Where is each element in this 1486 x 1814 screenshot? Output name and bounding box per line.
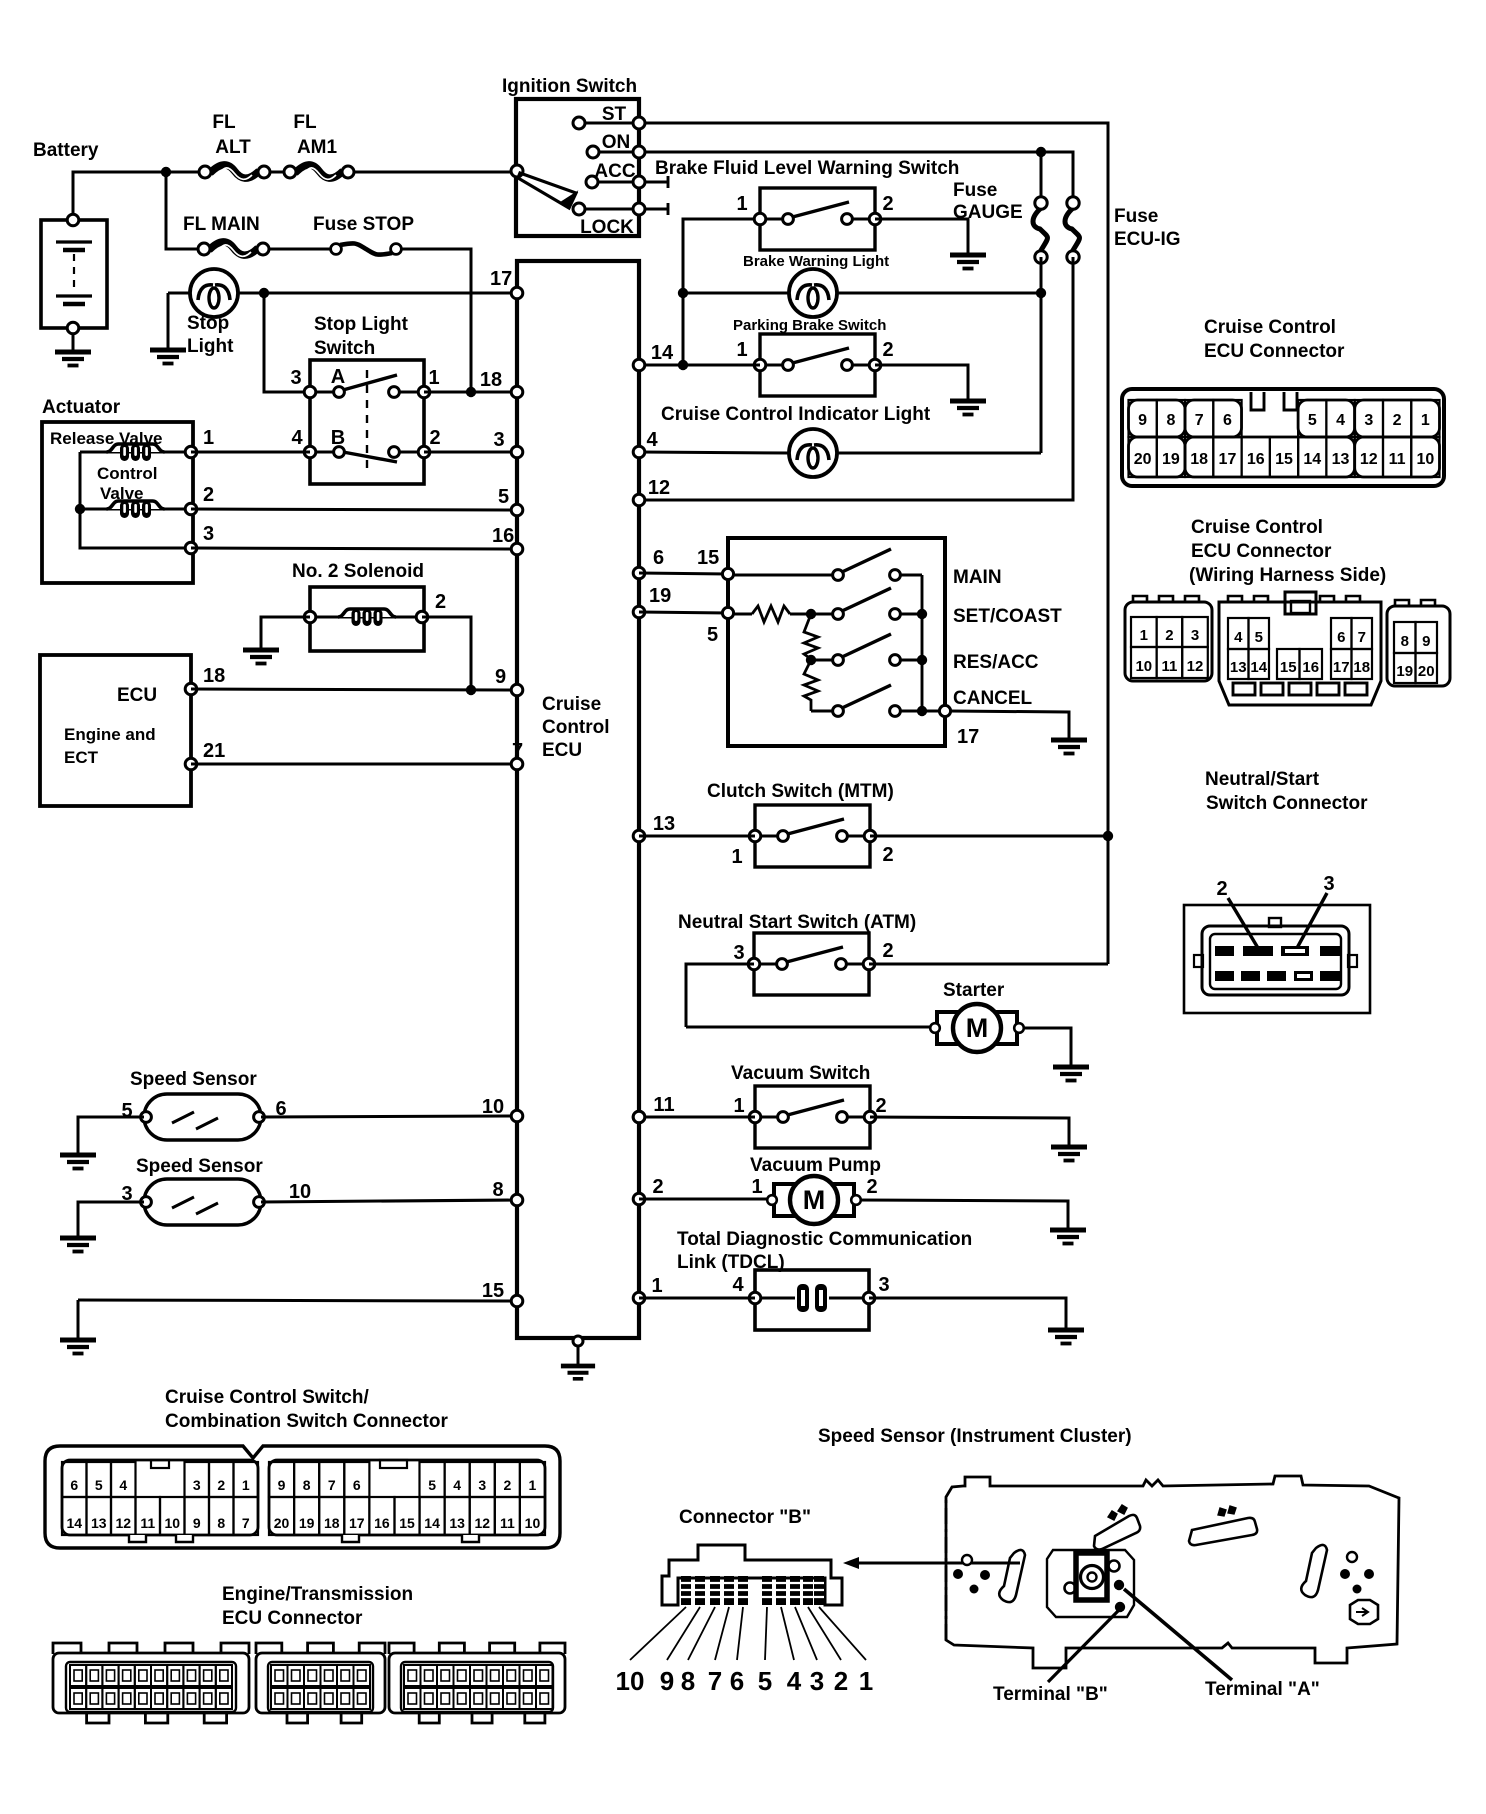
svg-text:18: 18 (203, 665, 225, 687)
svg-text:1: 1 (731, 846, 742, 868)
svg-text:M: M (803, 1185, 826, 1215)
svg-text:ECU: ECU (542, 740, 582, 761)
svg-text:18: 18 (480, 369, 502, 391)
svg-text:16: 16 (1302, 659, 1319, 676)
svg-text:ON: ON (602, 132, 631, 153)
svg-text:14: 14 (651, 342, 674, 364)
svg-text:12: 12 (474, 1515, 490, 1531)
svg-text:19: 19 (649, 585, 671, 607)
svg-text:ECT: ECT (64, 748, 99, 767)
svg-text:Light: Light (187, 336, 234, 357)
svg-text:3: 3 (203, 523, 214, 545)
svg-text:19: 19 (1396, 663, 1413, 680)
svg-text:Switch Connector: Switch Connector (1206, 793, 1368, 814)
svg-text:8: 8 (217, 1515, 225, 1531)
svg-text:6: 6 (1337, 629, 1345, 646)
svg-text:2: 2 (1393, 412, 1402, 429)
svg-text:17: 17 (957, 726, 979, 748)
svg-text:ECU-IG: ECU-IG (1114, 229, 1181, 250)
svg-text:B: B (331, 427, 345, 449)
svg-text:10: 10 (1135, 658, 1152, 675)
svg-text:16: 16 (492, 525, 514, 547)
svg-text:ECU: ECU (117, 685, 157, 706)
svg-text:Starter: Starter (943, 980, 1005, 1001)
svg-text:Fuse STOP: Fuse STOP (313, 214, 414, 235)
svg-text:5: 5 (428, 1477, 436, 1493)
svg-text:4: 4 (1234, 629, 1243, 646)
svg-text:10: 10 (1416, 451, 1434, 468)
svg-text:ACC: ACC (594, 161, 635, 182)
svg-text:19: 19 (299, 1515, 315, 1531)
svg-text:5: 5 (1308, 412, 1317, 429)
svg-text:14: 14 (66, 1515, 82, 1531)
svg-text:Parking Brake Switch: Parking Brake Switch (733, 317, 886, 334)
svg-text:2: 2 (834, 1666, 848, 1696)
svg-text:1: 1 (733, 1095, 744, 1117)
svg-text:Vacuum Pump: Vacuum Pump (750, 1155, 881, 1176)
svg-text:16: 16 (1247, 451, 1265, 468)
svg-text:15: 15 (1275, 451, 1293, 468)
svg-text:2: 2 (875, 1095, 886, 1117)
svg-text:14: 14 (424, 1515, 440, 1531)
svg-text:10: 10 (164, 1515, 180, 1531)
svg-text:17: 17 (490, 268, 512, 290)
svg-text:2: 2 (1165, 627, 1173, 644)
svg-text:7: 7 (1358, 629, 1366, 646)
svg-text:2: 2 (203, 484, 214, 506)
svg-text:17: 17 (349, 1515, 365, 1531)
svg-text:6: 6 (70, 1477, 78, 1493)
svg-text:Switch: Switch (314, 338, 375, 359)
svg-text:3: 3 (1323, 873, 1334, 895)
svg-text:7: 7 (708, 1666, 722, 1696)
svg-text:2: 2 (882, 339, 893, 361)
svg-text:15: 15 (482, 1280, 504, 1302)
svg-text:8: 8 (1401, 633, 1409, 650)
svg-text:2: 2 (882, 844, 893, 866)
svg-text:13: 13 (1230, 659, 1247, 676)
svg-text:18: 18 (324, 1515, 340, 1531)
svg-text:11: 11 (1161, 658, 1177, 675)
svg-text:Control: Control (97, 464, 157, 483)
svg-text:20: 20 (1134, 451, 1152, 468)
svg-text:8: 8 (1166, 412, 1175, 429)
svg-text:3: 3 (733, 942, 744, 964)
svg-text:6: 6 (730, 1666, 744, 1696)
svg-text:1: 1 (859, 1666, 873, 1696)
svg-text:16: 16 (374, 1515, 390, 1531)
svg-text:10: 10 (616, 1666, 645, 1696)
svg-text:3: 3 (290, 367, 301, 389)
svg-text:Cruise Control Indicator Light: Cruise Control Indicator Light (661, 404, 931, 425)
svg-text:2: 2 (1216, 878, 1227, 900)
svg-text:Neutral/Start: Neutral/Start (1205, 769, 1320, 790)
svg-text:Speed Sensor: Speed Sensor (130, 1069, 257, 1090)
svg-text:A: A (331, 366, 345, 388)
svg-text:9: 9 (278, 1477, 286, 1493)
svg-text:3: 3 (810, 1666, 824, 1696)
svg-text:Actuator: Actuator (42, 397, 121, 418)
svg-text:3: 3 (493, 429, 504, 451)
svg-text:ECU Connector: ECU Connector (222, 1608, 363, 1629)
svg-text:10: 10 (482, 1096, 504, 1118)
svg-text:19: 19 (1162, 451, 1180, 468)
svg-text:Speed Sensor: Speed Sensor (136, 1156, 263, 1177)
svg-text:Fuse: Fuse (953, 180, 997, 201)
svg-text:Terminal "B": Terminal "B" (993, 1684, 1108, 1705)
svg-text:15: 15 (697, 547, 719, 569)
svg-text:1: 1 (1421, 412, 1430, 429)
svg-text:13: 13 (449, 1515, 465, 1531)
svg-text:CANCEL: CANCEL (953, 688, 1033, 709)
svg-text:Battery: Battery (33, 140, 99, 161)
svg-text:3: 3 (878, 1274, 889, 1296)
svg-text:6: 6 (353, 1477, 361, 1493)
svg-text:Stop Light: Stop Light (314, 314, 409, 335)
svg-text:7: 7 (328, 1477, 336, 1493)
svg-text:7: 7 (512, 740, 523, 762)
svg-text:4: 4 (453, 1477, 461, 1493)
svg-text:Brake Fluid Level Warning Swit: Brake Fluid Level Warning Switch (655, 158, 959, 179)
svg-text:1: 1 (428, 367, 439, 389)
svg-text:17: 17 (1333, 659, 1350, 676)
svg-text:1: 1 (736, 339, 747, 361)
svg-text:9: 9 (495, 666, 506, 688)
svg-text:1: 1 (203, 427, 214, 449)
svg-text:Connector "B": Connector "B" (679, 1507, 811, 1528)
svg-text:AM1: AM1 (297, 137, 338, 158)
svg-text:6: 6 (1223, 412, 1232, 429)
svg-text:10: 10 (525, 1515, 541, 1531)
svg-text:3: 3 (1364, 412, 1373, 429)
svg-text:Cruise Control: Cruise Control (1191, 517, 1323, 538)
svg-text:2: 2 (217, 1477, 225, 1493)
svg-text:3: 3 (193, 1477, 201, 1493)
svg-text:11: 11 (653, 1094, 674, 1116)
svg-text:14: 14 (1303, 451, 1321, 468)
svg-text:13: 13 (653, 813, 675, 835)
svg-text:3: 3 (478, 1477, 486, 1493)
svg-text:20: 20 (274, 1515, 290, 1531)
svg-text:13: 13 (91, 1515, 107, 1531)
svg-text:9: 9 (1138, 412, 1147, 429)
svg-text:ECU Connector: ECU Connector (1191, 541, 1332, 562)
svg-text:4: 4 (119, 1477, 127, 1493)
svg-text:Clutch Switch (MTM): Clutch Switch (MTM) (707, 781, 894, 802)
svg-text:11: 11 (140, 1515, 155, 1531)
svg-text:LOCK: LOCK (580, 217, 634, 238)
svg-text:M: M (966, 1013, 989, 1043)
svg-text:15: 15 (399, 1515, 415, 1531)
svg-text:Engine and: Engine and (64, 725, 156, 744)
svg-text:5: 5 (707, 624, 718, 646)
svg-text:9: 9 (660, 1666, 674, 1696)
svg-text:11: 11 (500, 1515, 515, 1531)
svg-text:12: 12 (1360, 451, 1378, 468)
svg-text:5: 5 (95, 1477, 103, 1493)
svg-text:18: 18 (1190, 451, 1208, 468)
svg-text:4: 4 (646, 429, 658, 451)
svg-text:14: 14 (1250, 659, 1267, 676)
svg-text:No. 2 Solenoid: No. 2 Solenoid (292, 561, 424, 582)
svg-text:(Wiring Harness Side): (Wiring Harness Side) (1189, 565, 1386, 586)
svg-text:2: 2 (435, 591, 446, 613)
svg-text:FL MAIN: FL MAIN (183, 214, 260, 235)
svg-text:4: 4 (787, 1666, 802, 1696)
svg-text:7: 7 (1195, 412, 1204, 429)
svg-text:6: 6 (653, 547, 664, 569)
svg-text:Terminal "A": Terminal "A" (1205, 1679, 1320, 1700)
svg-text:12: 12 (648, 477, 670, 499)
svg-text:MAIN: MAIN (953, 567, 1002, 588)
svg-text:21: 21 (203, 740, 225, 762)
svg-text:1: 1 (651, 1275, 662, 1297)
svg-text:9: 9 (193, 1515, 201, 1531)
svg-text:Speed Sensor (Instrument Clust: Speed Sensor (Instrument Cluster) (818, 1426, 1132, 1447)
svg-text:SET/COAST: SET/COAST (953, 606, 1062, 627)
svg-text:12: 12 (1187, 658, 1204, 675)
svg-text:15: 15 (1280, 659, 1297, 676)
svg-text:5: 5 (1255, 629, 1263, 646)
svg-text:2: 2 (652, 1176, 663, 1198)
svg-text:FL: FL (293, 112, 317, 133)
svg-text:2: 2 (503, 1477, 511, 1493)
svg-text:ECU Connector: ECU Connector (1204, 341, 1345, 362)
svg-text:1: 1 (1140, 627, 1148, 644)
svg-text:11: 11 (1389, 451, 1406, 468)
svg-text:Combination Switch Connector: Combination Switch Connector (165, 1411, 448, 1432)
svg-text:8: 8 (492, 1179, 503, 1201)
svg-text:8: 8 (681, 1666, 695, 1696)
svg-text:Engine/Transmission: Engine/Transmission (222, 1584, 413, 1605)
svg-text:12: 12 (115, 1515, 131, 1531)
svg-text:10: 10 (289, 1181, 311, 1203)
svg-text:4: 4 (291, 427, 303, 449)
svg-text:1: 1 (736, 193, 747, 215)
svg-text:13: 13 (1332, 451, 1350, 468)
svg-text:3: 3 (1191, 627, 1199, 644)
svg-text:Control: Control (542, 717, 610, 738)
svg-text:20: 20 (1418, 663, 1435, 680)
svg-text:18: 18 (1353, 659, 1370, 676)
svg-text:2: 2 (429, 427, 440, 449)
svg-text:Cruise Control: Cruise Control (1204, 317, 1336, 338)
svg-text:1: 1 (242, 1477, 250, 1493)
svg-text:4: 4 (1336, 412, 1345, 429)
svg-text:5: 5 (121, 1100, 132, 1122)
svg-text:Neutral Start Switch (ATM): Neutral Start Switch (ATM) (678, 912, 916, 933)
svg-text:8: 8 (303, 1477, 311, 1493)
svg-text:2: 2 (882, 940, 893, 962)
svg-text:1: 1 (529, 1477, 537, 1493)
svg-text:Cruise Control Switch/: Cruise Control Switch/ (165, 1387, 369, 1408)
svg-text:ALT: ALT (215, 137, 251, 158)
svg-text:7: 7 (242, 1515, 250, 1531)
svg-text:5: 5 (758, 1666, 772, 1696)
svg-text:2: 2 (866, 1176, 877, 1198)
svg-text:Total Diagnostic Communication: Total Diagnostic Communication (677, 1229, 972, 1250)
svg-text:Vacuum Switch: Vacuum Switch (731, 1063, 870, 1084)
svg-text:Cruise: Cruise (542, 694, 601, 715)
svg-text:9: 9 (1422, 633, 1430, 650)
svg-text:RES/ACC: RES/ACC (953, 652, 1039, 673)
svg-text:1: 1 (751, 1176, 762, 1198)
svg-text:17: 17 (1219, 451, 1237, 468)
svg-text:Fuse: Fuse (1114, 206, 1158, 227)
svg-text:Stop: Stop (187, 313, 229, 334)
svg-text:5: 5 (498, 486, 509, 508)
svg-text:Ignition Switch: Ignition Switch (502, 76, 637, 97)
svg-text:2: 2 (882, 193, 893, 215)
svg-text:4: 4 (732, 1274, 744, 1296)
svg-text:FL: FL (212, 112, 236, 133)
